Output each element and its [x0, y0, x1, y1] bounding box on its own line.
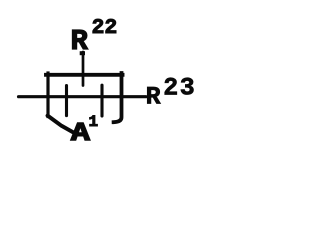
- ring A1 top edge: [46, 73, 123, 77]
- svg-text:R: R: [146, 83, 161, 112]
- ring bond tick left: [65, 86, 68, 116]
- svg-text:23: 23: [163, 74, 196, 103]
- ring A1 right side with bottom hook: [114, 73, 122, 122]
- bond to R22: [82, 52, 85, 86]
- svg-text:R: R: [71, 25, 89, 58]
- ring bond tick right: [100, 85, 103, 116]
- serif cap on R22 bond: [80, 51, 85, 55]
- svg-text:22: 22: [92, 16, 118, 40]
- svg-text:1: 1: [89, 113, 99, 131]
- ring A1 left side: [46, 73, 49, 117]
- wire: main chain horizontal bond: [19, 95, 147, 98]
- ring A1 left bottom slant: [48, 116, 76, 134]
